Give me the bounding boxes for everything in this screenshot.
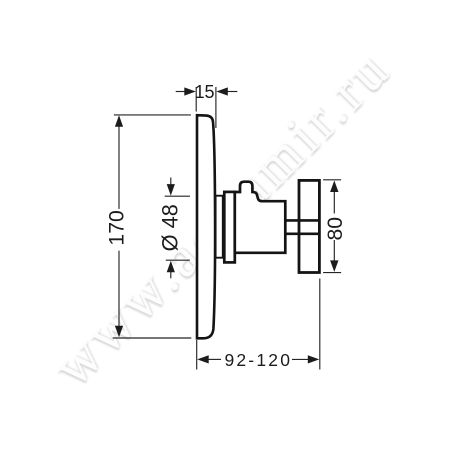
svg-text:5: 5 xyxy=(204,82,214,102)
svg-text:Ø 48: Ø 48 xyxy=(157,204,182,251)
svg-text:80: 80 xyxy=(324,217,347,241)
svg-text:170: 170 xyxy=(106,210,129,245)
svg-text:92-120: 92-120 xyxy=(224,350,292,370)
svg-text:1: 1 xyxy=(195,82,205,102)
